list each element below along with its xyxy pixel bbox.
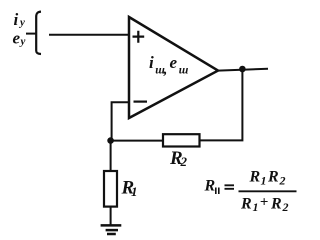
svg-text:у: у [19, 36, 26, 48]
svg-text:2: 2 [180, 154, 188, 169]
svg-text:1: 1 [131, 184, 138, 199]
svg-text:ш: ш [179, 65, 189, 77]
svg-text:2: 2 [282, 200, 289, 214]
svg-text:у: у [18, 17, 25, 29]
svg-text:R: R [240, 195, 252, 212]
svg-text:1: 1 [261, 174, 267, 188]
svg-text:e: e [13, 29, 21, 48]
svg-text:R: R [249, 169, 261, 186]
svg-text:i: i [149, 53, 154, 72]
svg-text:e: e [170, 53, 178, 72]
svg-text:2: 2 [279, 174, 286, 188]
svg-text:R: R [270, 195, 282, 212]
svg-text:1: 1 [253, 200, 259, 214]
svg-text:,: , [163, 62, 168, 78]
svg-text:R: R [267, 169, 279, 186]
svg-text:R: R [204, 178, 216, 195]
svg-text:+: + [260, 195, 269, 211]
svg-text:i: i [14, 10, 19, 29]
